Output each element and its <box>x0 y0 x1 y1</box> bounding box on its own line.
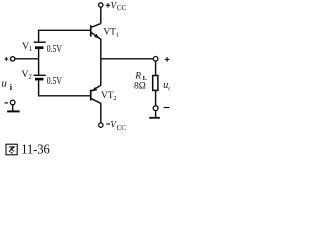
label RL <box>134 72 147 82</box>
node output- terminal <box>153 106 158 111</box>
label uo <box>163 80 172 92</box>
label + (output polarity) <box>165 57 170 62</box>
transistor VT1 (NPN) <box>90 24 101 59</box>
svg-text:11-36: 11-36 <box>21 142 50 157</box>
ground (output side) <box>149 111 160 118</box>
svg-text:R: R <box>134 72 141 82</box>
label - (output polarity) <box>164 107 170 109</box>
label - (input polarity) <box>5 102 9 104</box>
svg-text:VT: VT <box>101 91 114 101</box>
node +VCC terminal <box>99 3 103 7</box>
svg-text:CC: CC <box>117 4 127 12</box>
node input- terminal <box>10 100 15 105</box>
battery V2 <box>34 75 46 79</box>
battery V1 <box>34 42 46 48</box>
label V2 <box>22 69 33 81</box>
label +VCC <box>106 0 127 12</box>
wire +VCC to VT1 collector <box>100 7 102 23</box>
node -VCC terminal <box>99 123 103 127</box>
svg-text:o: o <box>168 84 170 92</box>
svg-text:1: 1 <box>116 32 119 39</box>
wire battery V1 to V2 (through input junction) <box>38 48 40 76</box>
svg-text:1: 1 <box>29 46 32 53</box>
wire output node (emitters to RL) <box>101 58 154 60</box>
transistor VT2 (PNP) <box>90 59 101 123</box>
wire battery chain bottom corner to VT2 base <box>39 79 91 96</box>
svg-text:0.5V: 0.5V <box>47 76 63 87</box>
svg-text:CC: CC <box>117 124 127 132</box>
svg-text:u: u <box>1 78 7 90</box>
caption: character tu (figure) drawn as strokes <box>6 144 17 155</box>
label VT2 <box>101 91 117 102</box>
label -VCC <box>106 119 126 132</box>
svg-text:i: i <box>10 82 13 92</box>
wire resistor RL to output- terminal <box>155 91 157 106</box>
svg-text:8Ω: 8Ω <box>134 81 146 91</box>
svg-text:VT: VT <box>103 28 116 38</box>
resistor RL <box>153 76 158 91</box>
label V1 <box>22 41 32 53</box>
wire battery chain top corner to VT1 base <box>39 30 91 42</box>
svg-text:0.5V: 0.5V <box>47 44 63 55</box>
ground (input side) <box>7 105 20 112</box>
wire output+ to resistor RL <box>155 61 157 75</box>
label ui <box>1 78 12 93</box>
node output+ terminal <box>153 57 158 62</box>
svg-text:2: 2 <box>28 74 32 81</box>
svg-text:2: 2 <box>113 95 116 102</box>
wire input+ to battery chain <box>15 58 39 60</box>
label VT1 <box>103 28 119 39</box>
node input+ terminal <box>11 57 15 61</box>
label + (input polarity) <box>5 57 9 61</box>
